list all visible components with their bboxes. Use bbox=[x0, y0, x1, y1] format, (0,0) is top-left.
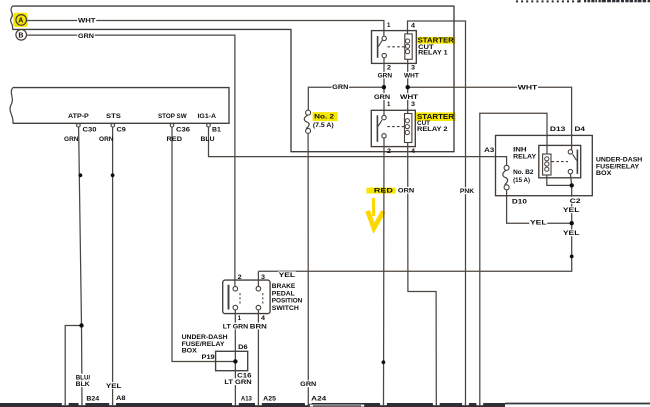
svg-text:GRN: GRN bbox=[300, 381, 317, 388]
label GRN on fuse junction line bbox=[332, 84, 350, 92]
svg-text:2: 2 bbox=[387, 65, 392, 72]
highlight on RED wire label bbox=[366, 188, 395, 194]
ECM pin circle C36 bbox=[170, 123, 174, 127]
svg-text:C36: C36 bbox=[176, 126, 191, 133]
label YEL on D10 junction wire bbox=[529, 219, 547, 227]
svg-text:ORN: ORN bbox=[398, 188, 415, 195]
wire YEL from fuse B2 bottom (D10) down-right to junction bbox=[507, 190, 572, 223]
svg-text:RELAY: RELAY bbox=[513, 153, 537, 160]
label GRN above A24 bbox=[300, 380, 318, 388]
svg-text:RELAY 1: RELAY 1 bbox=[418, 50, 448, 57]
label 3 relay-2 pin bbox=[411, 101, 416, 108]
label C9 bbox=[117, 126, 127, 133]
label BLU under B1 bbox=[201, 136, 215, 143]
label BRN below BPP bbox=[249, 323, 267, 331]
svg-text:D10: D10 bbox=[512, 198, 528, 205]
label D13 bbox=[549, 125, 566, 133]
junction dot branch to bottom connector bbox=[79, 323, 83, 327]
svg-text:3: 3 bbox=[261, 274, 266, 281]
label UNDER-DASH (right) bbox=[596, 157, 643, 164]
label BRAKE bbox=[272, 283, 296, 290]
wire LT GRN from BPP switch pin 1 down through P19 junction to A13 bbox=[234, 310, 236, 404]
svg-text:BOX: BOX bbox=[596, 170, 612, 177]
label D4 bbox=[574, 125, 586, 133]
under-dash fuse/relay box outline bbox=[496, 135, 593, 195]
svg-text:YEL: YEL bbox=[106, 383, 122, 390]
svg-text:PEDAL: PEDAL bbox=[272, 290, 295, 297]
wire WHT from terminal A to relay-1 pin 1 bbox=[27, 21, 384, 37]
svg-text:WHT: WHT bbox=[78, 18, 96, 25]
label BLK (B24 wire) bbox=[75, 381, 90, 389]
svg-text:A3: A3 bbox=[484, 147, 495, 154]
svg-text:IG1-A: IG1-A bbox=[198, 113, 217, 120]
svg-text:A13: A13 bbox=[241, 396, 252, 403]
svg-text:RED: RED bbox=[374, 188, 394, 195]
svg-text:D4: D4 bbox=[575, 126, 586, 133]
label YEL below junction bbox=[562, 229, 580, 237]
wire RED from STOP SW C36 down and right to P19 bbox=[172, 127, 235, 362]
label FUSE/RELAY (right) bbox=[596, 163, 640, 170]
label RELAY bbox=[513, 153, 537, 160]
splice dot on STS wire bbox=[111, 173, 115, 177]
svg-text:2: 2 bbox=[238, 274, 243, 281]
svg-text:YEL: YEL bbox=[563, 207, 580, 214]
label 1 relay-2 pin bbox=[387, 101, 391, 108]
svg-text:POSITION: POSITION bbox=[272, 298, 303, 305]
wire from INH relay D13 left and down to bottom connector bbox=[480, 113, 547, 404]
svg-text:3: 3 bbox=[411, 65, 416, 72]
label B24 bbox=[86, 396, 99, 403]
label FUSE/RELAY (P19) bbox=[182, 341, 226, 348]
terminal B bbox=[16, 30, 27, 41]
label STOP SW bbox=[158, 113, 187, 120]
svg-text:B1: B1 bbox=[212, 126, 221, 133]
label C36 bbox=[176, 126, 191, 133]
highlight on STARTER CUT RELAY 2 name bbox=[416, 112, 456, 121]
svg-text:P19: P19 bbox=[202, 354, 216, 361]
wire GRN from fuse No.2 bottom down to A24 bbox=[307, 133, 309, 404]
label GRN under C30 bbox=[64, 136, 79, 143]
svg-text:A8: A8 bbox=[116, 395, 126, 402]
label C30 bbox=[83, 126, 98, 133]
svg-text:1: 1 bbox=[387, 101, 391, 108]
ECM/PCM connector box (torn-edge, ATP-P/STS/STOP SW/IG1-A) bbox=[13, 88, 229, 124]
label INH bbox=[513, 146, 527, 153]
wire BLU from IG1-A B1 down-right to under-dash fuse B2 bbox=[209, 127, 507, 165]
junction dot GRN line at relay pins bbox=[382, 85, 386, 89]
svg-text:INH: INH bbox=[513, 146, 527, 153]
label RELAY 2 bbox=[417, 126, 448, 133]
svg-text:A: A bbox=[18, 18, 23, 25]
label STARTER (relay 1, highlighted) bbox=[418, 38, 454, 45]
label GRN on wire from B bbox=[77, 33, 94, 41]
wire GRN/BLU-BLK from ATP-P C30 down to B24 bbox=[79, 127, 82, 404]
label YEL below C2 bbox=[562, 206, 580, 214]
label BOX (P19) bbox=[182, 347, 198, 354]
svg-text:ATP-P: ATP-P bbox=[68, 113, 89, 120]
label LT GRN above A13 bbox=[224, 378, 253, 386]
label SWITCH bbox=[272, 305, 300, 312]
highlight on STARTER CUT RELAY 1 name bbox=[416, 37, 455, 44]
label WHT above relay-2 bbox=[399, 93, 418, 101]
label A8 bbox=[116, 395, 126, 402]
label 3 BPP pin bbox=[261, 274, 266, 281]
wire GRN relay-1 pin 2 down through junction to relay-2 pin 1 bbox=[383, 58, 385, 116]
svg-text:3: 3 bbox=[411, 101, 416, 108]
svg-text:(15 A): (15 A) bbox=[513, 177, 530, 184]
wire relay-1 pin 4 up-right then down (PNK) to bottom connector bbox=[408, 21, 466, 404]
wire WHT junction line to INH relay D4 bbox=[408, 87, 572, 149]
svg-text:BLU: BLU bbox=[201, 136, 215, 143]
ECM pin circle C30 bbox=[77, 123, 81, 127]
brake pedal position switch (box with 4 pins) bbox=[223, 280, 270, 314]
wire YEL from INH relay C2 down to brake pedal position switch pin 3 bbox=[258, 174, 571, 271]
svg-text:4: 4 bbox=[411, 23, 416, 30]
starter cut relay 2 (box with contacts and coil) bbox=[371, 110, 415, 146]
label ATP-P bbox=[68, 113, 89, 120]
ECM pin circle B1 bbox=[207, 123, 211, 127]
label BLU/ (B24 wire) bbox=[75, 374, 91, 382]
splice dot on RED wire bbox=[382, 360, 386, 364]
label WHT on wire from A bbox=[77, 17, 96, 25]
wire YEL from BPP switch pin 3 up bbox=[257, 271, 259, 286]
svg-text:GRN: GRN bbox=[378, 72, 393, 79]
label CUT (relay 1) bbox=[418, 44, 434, 51]
label CUT (relay 2) bbox=[417, 120, 430, 127]
wire ORN from relay-2 pin 4 down with jog to bottom connector bbox=[408, 143, 437, 405]
svg-text:C9: C9 bbox=[117, 126, 127, 133]
label 4 relay-2 pin bbox=[411, 148, 416, 155]
svg-text:ORN: ORN bbox=[99, 136, 114, 143]
splice dot on ATP-P wire bbox=[79, 173, 83, 177]
label 2 BPP pin bbox=[238, 274, 243, 281]
label GRN below relay-1 bbox=[377, 72, 393, 80]
svg-text:1: 1 bbox=[387, 22, 391, 29]
svg-text:C2: C2 bbox=[570, 198, 581, 205]
label 2 relay-1 pin bbox=[387, 65, 392, 72]
wire BRN from BPP switch pin 4 down to A25 bbox=[257, 310, 259, 404]
label C16 bbox=[237, 372, 253, 380]
svg-text:RELAY 2: RELAY 2 bbox=[417, 126, 448, 133]
svg-text:LT GRN: LT GRN bbox=[224, 379, 252, 386]
svg-text:BLK: BLK bbox=[76, 381, 90, 388]
label 4 BPP pin bbox=[261, 315, 266, 322]
highlight on fuse No.2 label bbox=[313, 112, 338, 121]
yellow annotation arrow pointing down at RED wire bbox=[368, 198, 384, 228]
svg-text:WHT: WHT bbox=[400, 94, 418, 101]
label GRN above relay-2 bbox=[373, 93, 391, 101]
label A13 bbox=[241, 396, 252, 403]
svg-text:(7.5 A): (7.5 A) bbox=[313, 122, 334, 129]
svg-text:GRN: GRN bbox=[78, 33, 95, 40]
label No. 2 (fuse, highlighted) bbox=[314, 114, 334, 121]
wire GRN from terminal B down to brake pedal position switch pin 2 bbox=[27, 35, 235, 286]
svg-text:2: 2 bbox=[387, 148, 392, 155]
fuse No.2 (7.5 A) bbox=[304, 110, 310, 133]
svg-text:YEL: YEL bbox=[279, 272, 296, 279]
label (15 A) bbox=[513, 177, 530, 184]
svg-text:WHT: WHT bbox=[518, 84, 538, 91]
label BOX (right) bbox=[596, 170, 612, 177]
svg-text:D6: D6 bbox=[238, 344, 248, 351]
svg-text:BOX: BOX bbox=[182, 347, 198, 354]
terminal A bbox=[16, 15, 27, 26]
wire INH relay coil bottom to C2 junction bbox=[547, 175, 572, 185]
label A25 bbox=[263, 396, 276, 403]
component box with terminals A/B (torn-edge outline around relay area) bbox=[12, 6, 454, 152]
label YEL on BPP pin3 wire bbox=[278, 271, 296, 279]
svg-text:RED: RED bbox=[167, 136, 183, 143]
label D10 bbox=[512, 198, 528, 205]
svg-text:GRN: GRN bbox=[332, 84, 349, 91]
label STS bbox=[106, 113, 121, 120]
bottom connector label plate bbox=[310, 404, 365, 407]
svg-text:B: B bbox=[18, 33, 23, 40]
svg-text:No. 2: No. 2 bbox=[314, 114, 334, 121]
label C2 bbox=[569, 197, 581, 205]
svg-text:WHT: WHT bbox=[404, 72, 419, 79]
svg-text:BRAKE: BRAKE bbox=[272, 283, 296, 290]
svg-text:1: 1 bbox=[238, 315, 242, 322]
label RELAY 1 bbox=[418, 50, 448, 57]
wire branch from splice to bottom connector bbox=[65, 326, 81, 405]
legend dotted line and cropped text at top right bbox=[516, 0, 650, 2]
label 1 relay-1 pin bbox=[387, 22, 391, 29]
bottom ECM/PCM connector strip bbox=[0, 403, 650, 407]
label ORN near relay-2 pin 4 bbox=[397, 187, 415, 195]
svg-text:A24: A24 bbox=[311, 396, 327, 403]
label RED (highlighted) near relay-2 pin 2 bbox=[374, 188, 394, 195]
svg-text:YEL: YEL bbox=[563, 230, 580, 237]
label IG1-A bbox=[198, 113, 217, 120]
label ORN under C9 bbox=[99, 136, 114, 143]
label D6 bbox=[238, 344, 249, 352]
junction dot WHT line at relay pins bbox=[406, 85, 410, 89]
splice dot on YEL wire bbox=[570, 255, 574, 259]
junction dot P19 bbox=[233, 359, 237, 363]
wire GRN from fuse No.2 top to relay pins junction bbox=[308, 87, 384, 110]
svg-text:C30: C30 bbox=[83, 126, 98, 133]
label PNK bbox=[459, 187, 475, 195]
label 3 relay-1 pin bbox=[411, 65, 416, 72]
label YEL above A8 bbox=[105, 382, 122, 390]
wire WHT relay-1 pin 3 down through junction to relay-2 pin 3 bbox=[407, 59, 409, 113]
starter cut relay 1 (box with contacts and coil) bbox=[372, 31, 417, 64]
ECM pin circle C9 bbox=[111, 123, 115, 127]
label STARTER (relay 2, highlighted) bbox=[417, 114, 454, 121]
INH relay (inside under-dash box) bbox=[539, 145, 581, 177]
svg-text:No. B2: No. B2 bbox=[513, 169, 534, 176]
label 1 BPP pin bbox=[238, 315, 242, 322]
svg-text:LT GRN: LT GRN bbox=[223, 323, 249, 330]
label A24 bbox=[311, 396, 327, 403]
svg-text:STOP SW: STOP SW bbox=[158, 113, 187, 120]
label P19 bbox=[202, 354, 216, 361]
svg-text:YEL: YEL bbox=[530, 220, 547, 227]
label 2 relay-2 pin bbox=[387, 148, 392, 155]
svg-text:GRN: GRN bbox=[64, 136, 79, 143]
label No. B2 bbox=[513, 169, 534, 176]
svg-text:PNK: PNK bbox=[460, 188, 475, 195]
svg-text:D13: D13 bbox=[550, 126, 566, 133]
label B1 bbox=[212, 126, 221, 133]
label A3 at under-dash box bbox=[483, 146, 495, 154]
junction dot YEL D10/C2 bbox=[570, 221, 574, 225]
svg-text:4: 4 bbox=[411, 148, 416, 155]
under-dash fuse/relay box P19/D6/C16 junction block bbox=[216, 351, 248, 370]
svg-text:A25: A25 bbox=[263, 396, 276, 403]
svg-text:SWITCH: SWITCH bbox=[272, 305, 300, 312]
label (7.5 A) bbox=[313, 122, 334, 129]
label PEDAL bbox=[272, 290, 295, 297]
svg-text:4: 4 bbox=[261, 315, 266, 322]
label WHT on junction line to D4 bbox=[517, 84, 538, 92]
label WHT below relay-1 bbox=[403, 72, 419, 80]
fuse No. B2 (15 A) bbox=[503, 165, 509, 190]
junction dot INH relay C2 internal bbox=[570, 183, 574, 187]
label POSITION bbox=[272, 298, 303, 305]
svg-text:B24: B24 bbox=[86, 396, 99, 403]
svg-text:BRN: BRN bbox=[250, 323, 268, 330]
label 4 relay-1 pin bbox=[411, 23, 416, 30]
highlight on connector A bbox=[13, 13, 28, 27]
wire ORN/YEL from STS C9 down to A8 bbox=[112, 127, 114, 404]
label UNDER-DASH (P19) bbox=[182, 334, 229, 341]
svg-text:STS: STS bbox=[106, 113, 121, 120]
label RED under C36 bbox=[167, 136, 183, 143]
svg-text:GRN: GRN bbox=[374, 94, 391, 101]
wire RED from relay-2 pin 2 down to bottom connector bbox=[383, 138, 386, 404]
label LT GRN below BPP bbox=[222, 323, 249, 331]
